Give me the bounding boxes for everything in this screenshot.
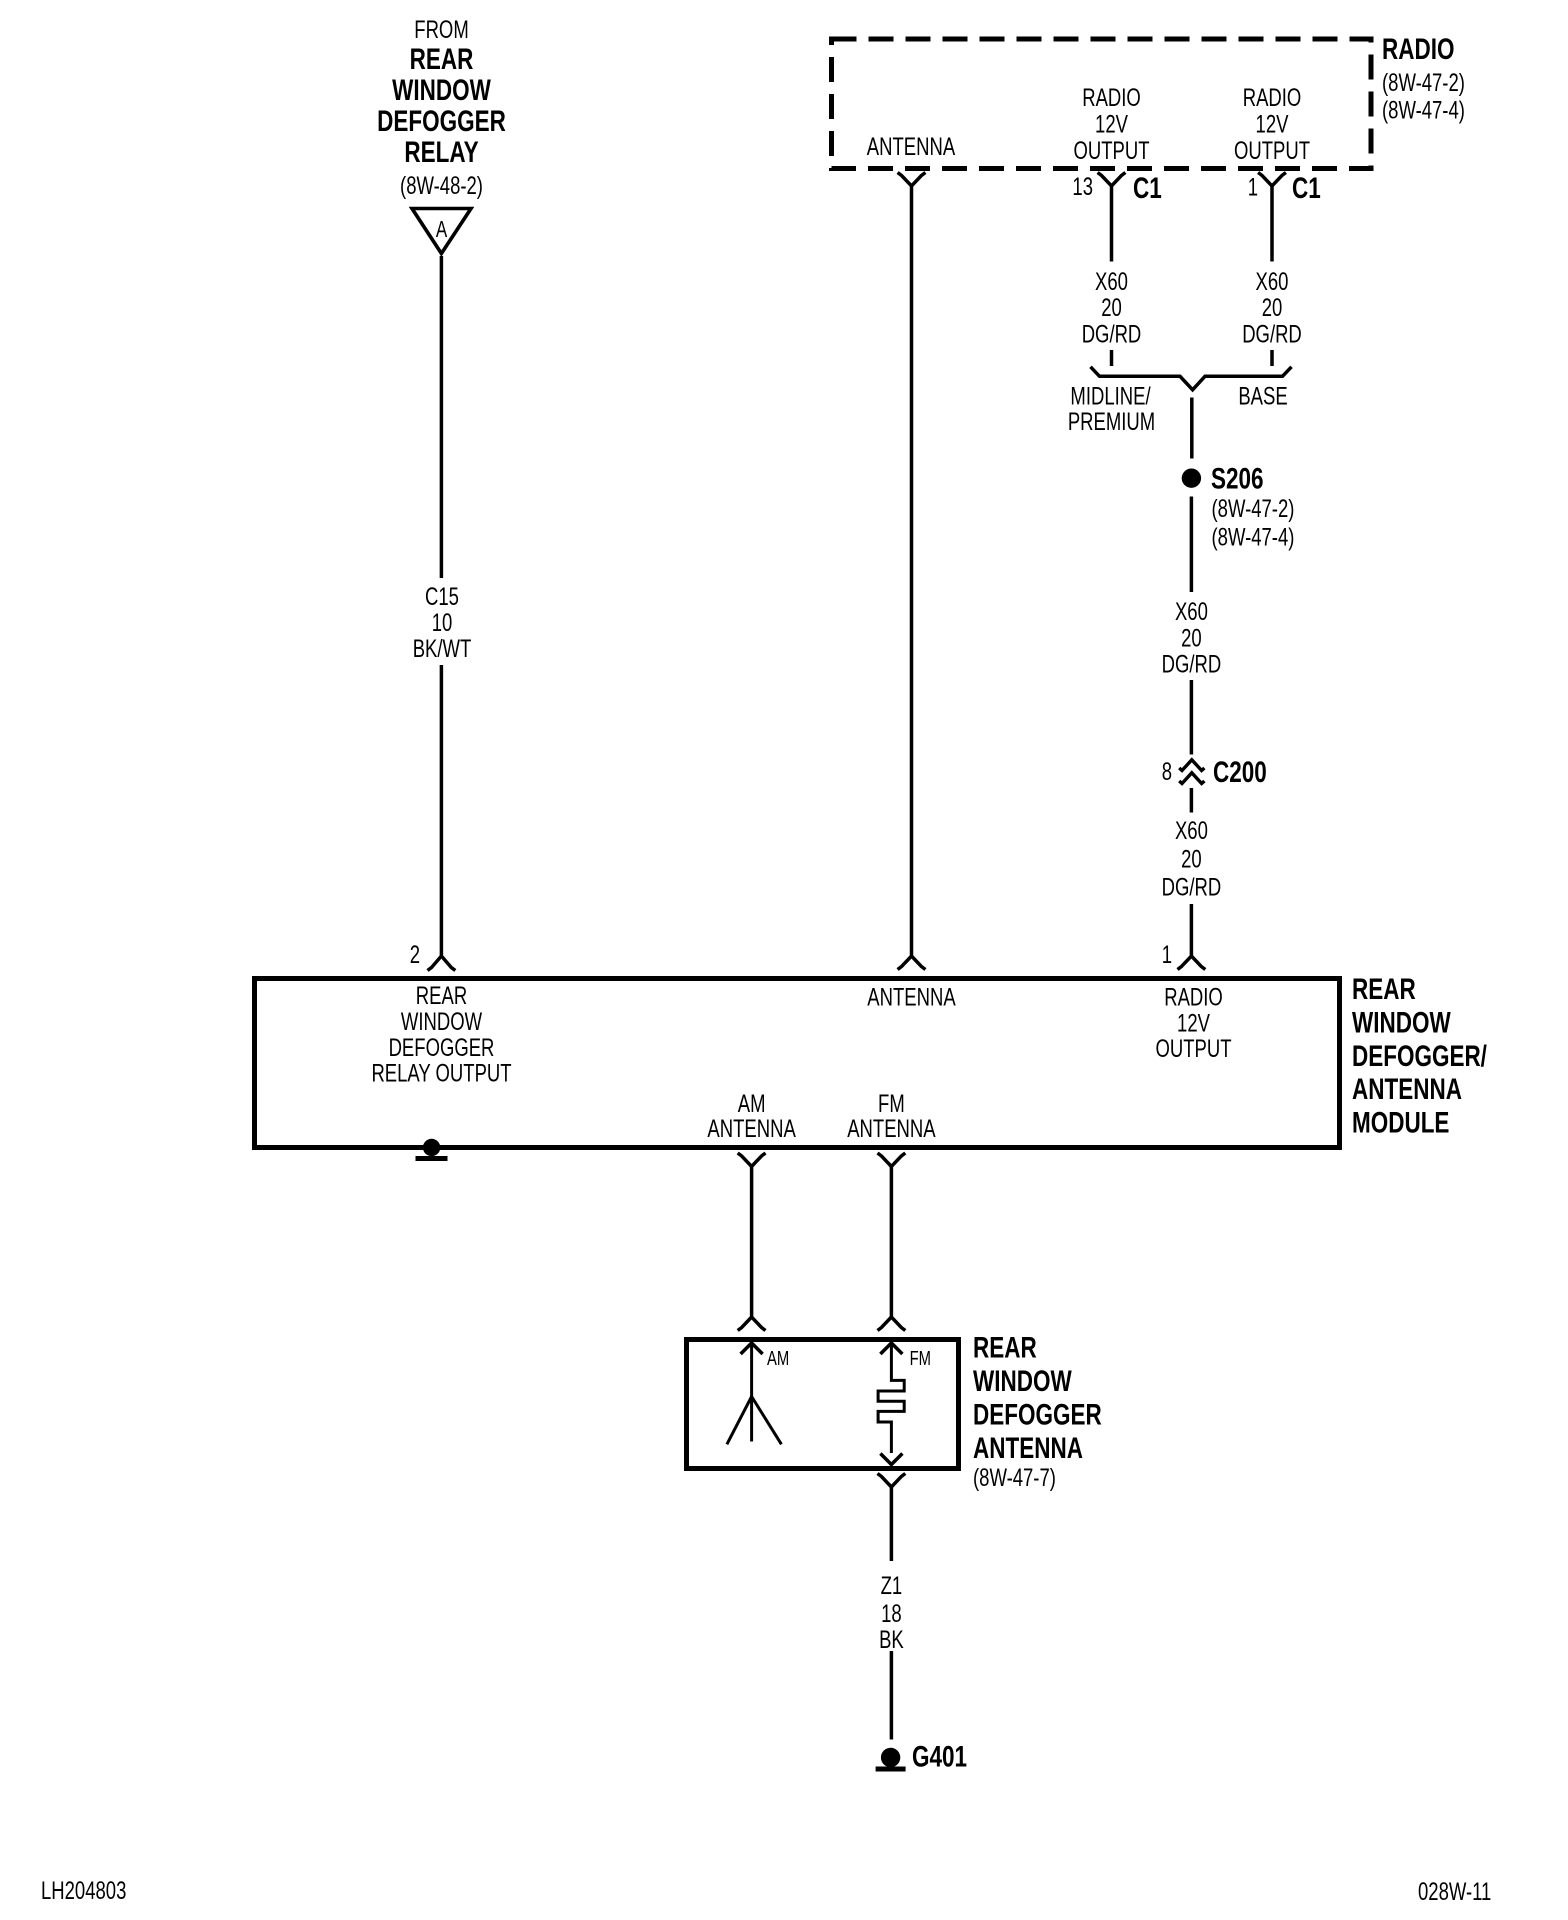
AM wire module to antenna xyxy=(750,1167,754,1318)
wire pin 1 down xyxy=(1270,186,1274,262)
svg-text:BK: BK xyxy=(879,1625,904,1653)
module pin 2 label: REAR WINDOW DEFOGGER RELAY OUTPUT xyxy=(371,981,511,1087)
svg-text:2: 2 xyxy=(410,940,420,968)
svg-text:REAR: REAR xyxy=(1352,972,1416,1006)
svg-text:10: 10 xyxy=(432,608,453,636)
RADIO 12V OUTPUT label (pin 1 col) xyxy=(1234,83,1310,164)
ground wire upper segment xyxy=(890,1487,894,1561)
RADIO box title xyxy=(1382,32,1465,124)
RADIO dashed box xyxy=(832,39,1372,169)
svg-text:20: 20 xyxy=(1101,293,1122,321)
pin 2 male connector (lambda) xyxy=(428,956,456,971)
ground wire lower segment xyxy=(890,1651,894,1740)
svg-text:RADIO: RADIO xyxy=(1382,32,1454,66)
svg-text:DG/RD: DG/RD xyxy=(1242,320,1302,348)
wire S206 down xyxy=(1190,497,1194,593)
REAR WINDOW DEFOGGER/ANTENNA MODULE box xyxy=(255,979,1340,1148)
antenna module pin male connector (lambda) xyxy=(898,956,926,970)
FM wire module to antenna xyxy=(890,1167,894,1318)
svg-text:ANTENNA: ANTENNA xyxy=(707,1114,796,1142)
module case ground marker xyxy=(416,1139,448,1159)
AM male connector (lambda) at antenna box xyxy=(738,1317,766,1331)
REAR WINDOW DEFOGGER ANTENNA box xyxy=(687,1340,959,1469)
pin 1 female connector (radio) xyxy=(1258,173,1286,187)
AM entry arrowhead xyxy=(741,1343,763,1354)
svg-text:REAR: REAR xyxy=(416,981,467,1009)
svg-text:C200: C200 xyxy=(1213,755,1267,789)
svg-text:ANTENNA: ANTENNA xyxy=(973,1431,1083,1465)
svg-text:WINDOW: WINDOW xyxy=(1352,1005,1451,1039)
splice S206 xyxy=(1182,469,1201,488)
module name: REAR WINDOW DEFOGGER/ ANTENNA MODULE xyxy=(1352,972,1487,1140)
wire from triangle A down (upper segment) xyxy=(440,256,444,578)
svg-text:12V: 12V xyxy=(1095,110,1128,138)
svg-text:1: 1 xyxy=(1162,940,1172,968)
svg-text:DEFOGGER: DEFOGGER xyxy=(377,104,506,138)
svg-text:(8W-47-4): (8W-47-4) xyxy=(1212,523,1295,551)
svg-text:OUTPUT: OUTPUT xyxy=(1234,136,1310,164)
wire to module pin 1 xyxy=(1190,904,1194,956)
svg-text:DEFOGGER/: DEFOGGER/ xyxy=(1352,1039,1487,1073)
svg-text:C1: C1 xyxy=(1133,171,1162,205)
FM entry arrowhead xyxy=(880,1343,902,1354)
pin 13 female connector xyxy=(1098,173,1126,187)
svg-text:WINDOW: WINDOW xyxy=(973,1364,1072,1398)
svg-text:X60: X60 xyxy=(1256,267,1289,295)
svg-text:MODULE: MODULE xyxy=(1352,1105,1449,1139)
svg-text:REAR: REAR xyxy=(410,42,474,76)
svg-text:X60: X60 xyxy=(1175,816,1208,844)
svg-text:RELAY OUTPUT: RELAY OUTPUT xyxy=(371,1059,511,1087)
svg-text:12V: 12V xyxy=(1177,1009,1210,1037)
svg-text:REAR: REAR xyxy=(973,1330,1037,1364)
svg-text:OUTPUT: OUTPUT xyxy=(1155,1034,1231,1062)
svg-text:RADIO: RADIO xyxy=(1082,83,1141,111)
wire label Z1 18 BK xyxy=(879,1571,904,1653)
svg-text:8: 8 xyxy=(1162,757,1172,785)
svg-text:20: 20 xyxy=(1262,293,1283,321)
svg-text:DG/RD: DG/RD xyxy=(1082,320,1142,348)
RADIO 12V OUTPUT label (pin 13 col) xyxy=(1073,83,1149,164)
ground pin female connector below antenna box xyxy=(878,1474,906,1488)
branch label MIDLINE/PREMIUM xyxy=(1068,382,1155,436)
svg-text:X60: X60 xyxy=(1095,267,1128,295)
svg-text:C1: C1 xyxy=(1292,171,1321,205)
wire brace to S206 xyxy=(1190,398,1194,459)
svg-text:FM: FM xyxy=(910,1347,931,1370)
svg-text:RADIO: RADIO xyxy=(1243,83,1302,111)
AM pin female connector below module xyxy=(738,1153,766,1167)
wire label C15 10 BK/WT xyxy=(413,582,472,662)
AM antenna element symbol xyxy=(727,1343,782,1444)
svg-text:20: 20 xyxy=(1181,624,1202,652)
svg-text:FROM: FROM xyxy=(414,15,468,43)
wire stub right into brace xyxy=(1270,350,1274,366)
wire C200 down xyxy=(1190,788,1194,813)
inline connector C200 (double chevron) xyxy=(1179,760,1204,784)
wire stub left into brace xyxy=(1110,350,1114,366)
radio ANTENNA pin female connector xyxy=(898,173,926,187)
svg-text:OUTPUT: OUTPUT xyxy=(1073,136,1149,164)
svg-text:S206: S206 xyxy=(1211,461,1264,495)
svg-text:RADIO: RADIO xyxy=(1164,983,1223,1011)
svg-text:(8W-47-7): (8W-47-7) xyxy=(973,1463,1056,1491)
module pin 1 male connector (lambda) xyxy=(1178,956,1206,970)
svg-text:LH204803: LH204803 xyxy=(41,1876,126,1904)
FM defogger grid element symbol xyxy=(878,1343,904,1453)
svg-text:13: 13 xyxy=(1072,172,1093,200)
svg-text:BK/WT: BK/WT xyxy=(413,634,472,662)
svg-text:X60: X60 xyxy=(1175,597,1208,625)
module RADIO 12V OUTPUT pin label xyxy=(1155,983,1231,1063)
svg-text:18: 18 xyxy=(881,1599,902,1627)
svg-text:028W-11: 028W-11 xyxy=(1418,1877,1491,1905)
svg-text:1: 1 xyxy=(1248,173,1258,201)
wire label X60 20 DG/RD (right) xyxy=(1242,267,1302,348)
svg-text:12V: 12V xyxy=(1256,110,1289,138)
wire pin 13 down xyxy=(1110,186,1114,262)
svg-text:WINDOW: WINDOW xyxy=(392,73,491,107)
svg-text:MIDLINE/: MIDLINE/ xyxy=(1070,382,1151,410)
svg-text:AM: AM xyxy=(767,1347,789,1370)
node A label: FROM REAR WINDOW DEFOGGER RELAY (8W-48-2) xyxy=(377,15,506,199)
module AM ANTENNA pin label xyxy=(707,1089,796,1142)
svg-text:(8W-47-2): (8W-47-2) xyxy=(1382,68,1465,96)
FM exit arrowhead xyxy=(880,1454,902,1465)
svg-text:(8W-47-2): (8W-47-2) xyxy=(1212,494,1295,522)
svg-text:ANTENNA: ANTENNA xyxy=(867,132,956,160)
svg-text:WINDOW: WINDOW xyxy=(401,1007,482,1035)
antenna box name: REAR WINDOW DEFOGGER ANTENNA (8W-47-7) xyxy=(973,1330,1102,1491)
svg-text:(8W-48-2): (8W-48-2) xyxy=(400,171,483,199)
wire label X60 20 DG/RD (below S206) xyxy=(1162,597,1222,678)
FM pin female connector below module xyxy=(878,1153,906,1167)
svg-text:Z1: Z1 xyxy=(881,1571,903,1599)
module FM ANTENNA pin label xyxy=(847,1089,936,1142)
svg-text:20: 20 xyxy=(1181,845,1202,873)
off-page connector triangle A xyxy=(412,209,471,254)
svg-text:ANTENNA: ANTENNA xyxy=(847,1114,936,1142)
svg-text:DEFOGGER: DEFOGGER xyxy=(389,1033,495,1061)
FM male connector (lambda) at antenna box xyxy=(878,1317,906,1331)
svg-text:ANTENNA: ANTENNA xyxy=(1352,1072,1462,1106)
ground G401 xyxy=(876,1748,906,1769)
svg-text:PREMIUM: PREMIUM xyxy=(1068,407,1155,435)
svg-text:DG/RD: DG/RD xyxy=(1162,873,1222,901)
svg-text:BASE: BASE xyxy=(1238,382,1287,410)
svg-text:ANTENNA: ANTENNA xyxy=(867,983,956,1011)
svg-text:G401: G401 xyxy=(912,1739,967,1773)
merge brace xyxy=(1091,367,1292,390)
svg-text:RELAY: RELAY xyxy=(404,135,478,169)
svg-text:DEFOGGER: DEFOGGER xyxy=(973,1397,1102,1431)
wire from C15 label down to module pin 2 xyxy=(440,665,444,956)
wire label X60 20 DG/RD (left) xyxy=(1082,267,1142,348)
svg-text:DG/RD: DG/RD xyxy=(1162,650,1222,678)
svg-text:A: A xyxy=(436,218,448,243)
svg-text:C15: C15 xyxy=(425,582,459,610)
antenna wire radio to module xyxy=(910,186,914,956)
wire label X60 20 DG/RD (below C200) xyxy=(1162,816,1222,901)
svg-text:(8W-47-4): (8W-47-4) xyxy=(1382,96,1465,124)
wire to C200 xyxy=(1190,680,1194,755)
